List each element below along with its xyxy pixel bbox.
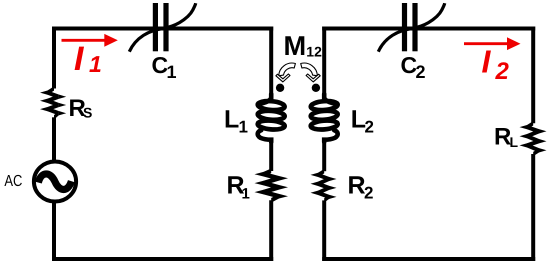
resistor RS <box>40 86 66 119</box>
wire top of right loop <box>322 27 535 31</box>
mutual coupling arrow right <box>301 63 321 82</box>
wire bottom of left loop <box>52 257 273 261</box>
wire top of left loop <box>52 27 273 31</box>
wire right-loop branch below R2 <box>322 200 326 261</box>
capacitor C2 plates <box>402 3 407 51</box>
svg-text:S: S <box>83 105 92 121</box>
capacitor C1 plates <box>153 3 158 51</box>
wire left side below source <box>52 202 56 261</box>
polarity dot L1 <box>276 84 284 92</box>
svg-text:12: 12 <box>306 44 322 60</box>
wire left side between RS and source <box>52 117 56 161</box>
polarity dot L2 <box>312 84 320 92</box>
inductor L2 coil <box>310 100 338 111</box>
svg-text:2: 2 <box>495 58 510 85</box>
wire right-loop branch between L2 and R2 <box>322 140 326 172</box>
wire right side above RL <box>531 27 535 124</box>
svg-text:L: L <box>224 106 239 134</box>
wire right side below RL <box>531 154 535 261</box>
svg-text:M: M <box>284 30 307 61</box>
svg-text:1: 1 <box>167 62 177 82</box>
svg-text:2: 2 <box>416 62 426 82</box>
AC source circle <box>34 162 76 202</box>
svg-text:L: L <box>510 134 519 150</box>
current arrow I2 <box>464 42 510 45</box>
AC source sine wave <box>38 174 71 190</box>
wire left side above RS <box>52 27 56 89</box>
svg-text:1: 1 <box>242 186 250 203</box>
resistor R2 <box>311 169 337 203</box>
wire center branch below R1 <box>269 200 273 261</box>
svg-text:1: 1 <box>239 118 248 137</box>
wire bottom of right loop <box>322 257 535 261</box>
wire center branch between L1 and R1 <box>269 140 273 172</box>
capacitor C2 variable curve <box>378 3 444 52</box>
svg-text:R: R <box>348 172 366 200</box>
capacitor C1 variable curve <box>129 3 195 52</box>
svg-text:2: 2 <box>364 184 373 203</box>
svg-text:1: 1 <box>89 51 102 77</box>
resistor R1 <box>255 169 289 203</box>
svg-text:I: I <box>482 44 492 80</box>
svg-text:2: 2 <box>365 118 374 137</box>
inductor L1 coil <box>257 100 285 111</box>
wire right-loop branch above L2 <box>322 27 326 97</box>
current arrow I1 <box>62 39 108 42</box>
wire center branch above L1 <box>269 27 273 97</box>
mutual coupling arrow left <box>276 63 296 82</box>
svg-text:I: I <box>74 40 85 78</box>
svg-text:AC: AC <box>4 173 22 190</box>
resistor RL <box>520 121 547 156</box>
